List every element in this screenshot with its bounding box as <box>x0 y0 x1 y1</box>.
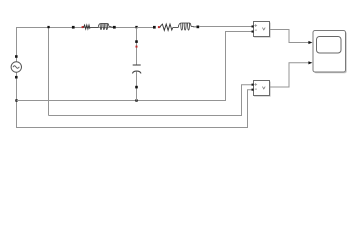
scope input arrow 2 <box>308 61 312 64</box>
resistor R2 zigzag <box>160 24 173 30</box>
capacitor red port marker <box>136 46 138 48</box>
branch2 left port <box>153 26 156 29</box>
branch1 right port <box>113 26 116 29</box>
voltmeter U1 input port 1 <box>252 25 254 27</box>
inductor L2 coils <box>178 23 196 30</box>
wire vertical tap at x=48 down to line B <box>48 28 50 116</box>
capacitor top port <box>135 40 138 43</box>
wire U1 output to scope input 1 <box>270 30 309 43</box>
wire line B to lower voltmeter + input <box>49 85 252 116</box>
inductor L1 coils <box>98 24 113 30</box>
branch2 red port marker <box>158 26 160 28</box>
AC source top port <box>15 55 18 58</box>
resistor R1 zigzag <box>84 25 91 29</box>
voltmeter U2 input port 1 <box>252 84 254 86</box>
voltmeter U2 body <box>254 81 270 96</box>
wire U2 output to scope input 2 <box>270 63 309 87</box>
capacitor C1 top plate <box>133 64 141 66</box>
branch1 left port <box>72 26 75 29</box>
scope input arrow 1 <box>308 41 312 44</box>
wire R2 to L2 <box>173 27 179 29</box>
wire between junction and branch2 <box>137 27 153 29</box>
voltmeter U2 plus mark <box>254 83 257 86</box>
wire R1 to L1 <box>90 27 98 29</box>
AC voltage source V1 circle <box>11 62 21 72</box>
AC source sine glyph <box>13 66 19 69</box>
wire from source bottom down and line C to lower voltmeter - input <box>17 72 252 128</box>
scope block shadow <box>314 32 347 73</box>
voltmeter U2 shadow <box>254 82 271 97</box>
capacitor C1 bottom curved plate <box>132 71 141 73</box>
scope screen <box>317 37 342 54</box>
capacitor bottom port <box>135 86 138 89</box>
wire top bus from source to branch1 <box>17 28 73 63</box>
voltmeter U1 minus mark <box>255 29 257 31</box>
voltmeter U2 v mark <box>262 87 265 89</box>
AC source bottom port <box>15 76 18 79</box>
branch1 red port marker <box>82 26 84 28</box>
wire line A middle rail to top voltmeter - input <box>17 32 252 101</box>
node junction dot at source bottom rail (16.5,100.5) <box>15 99 17 101</box>
capacitor branch wire from top junction <box>136 28 138 65</box>
wire capacitor bottom lead <box>136 72 138 101</box>
node junction dot branch point to capacitor (136.5,27) <box>135 26 137 28</box>
node junction dot at (48.5,27) <box>47 26 49 28</box>
branch2 right port <box>197 26 200 29</box>
node junction dot capacitor bottom (136.5,100.5) <box>135 99 137 101</box>
voltmeter U1 body <box>254 22 270 37</box>
voltmeter U1 input port 2 <box>252 31 254 33</box>
voltmeter U1 plus mark <box>254 24 257 27</box>
voltmeter U2 minus mark <box>255 88 257 90</box>
scope block body <box>313 31 346 73</box>
voltmeter U1 shadow <box>254 23 271 38</box>
wire branch2 output to voltmeter U1 + input <box>199 26 251 28</box>
voltmeter U1 v mark <box>262 28 265 30</box>
wire branch1 row <box>74 27 135 29</box>
voltmeter U2 input port 2 <box>252 89 254 91</box>
